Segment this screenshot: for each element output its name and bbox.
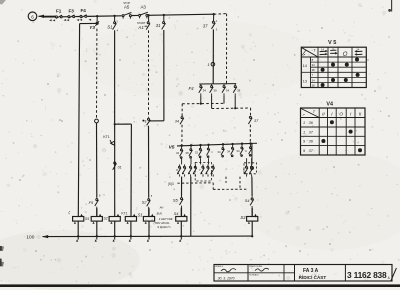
svg-text:F3: F3 [69, 8, 75, 13]
svg-text:S4: S4 [174, 211, 180, 216]
svg-text:34: 34 [312, 63, 315, 67]
svg-text:S5: S5 [173, 197, 179, 202]
svg-text:SCHVÁLIL: SCHVÁLIL [249, 273, 260, 276]
svg-text:34: 34 [217, 150, 221, 154]
svg-text:ŘÍDICÍ ČÁST: ŘÍDICÍ ČÁST [299, 273, 327, 280]
svg-text:38: 38 [312, 83, 315, 87]
svg-text:Y3: Y3 [89, 25, 95, 30]
svg-text:34: 34 [227, 149, 231, 153]
svg-text:01: 01 [118, 166, 122, 170]
svg-text:F4: F4 [189, 86, 195, 91]
svg-text:STOP: STOP [123, 1, 130, 5]
svg-text:V 5: V 5 [328, 40, 336, 46]
svg-text:S4: S4 [245, 198, 251, 203]
svg-text:F4: F4 [81, 8, 87, 13]
svg-text:100: 100 [26, 235, 34, 241]
svg-text:30. 3. 1970: 30. 3. 1970 [218, 276, 235, 280]
svg-text:S5: S5 [85, 217, 89, 221]
svg-text:FA 3 A: FA 3 A [303, 268, 319, 274]
svg-text:KT1: KT1 [121, 211, 127, 215]
svg-text:37: 37 [203, 24, 208, 29]
svg-text:↗: ↗ [303, 53, 306, 57]
svg-text:34: 34 [176, 151, 180, 155]
svg-text:34: 34 [312, 78, 315, 82]
svg-text:34: 34 [226, 89, 230, 93]
svg-text:S.RADA ½: S.RADA ½ [157, 225, 171, 229]
svg-text:14: 14 [303, 64, 307, 68]
svg-text:3 1162 838: 3 1162 838 [347, 270, 387, 280]
svg-text:F1: F1 [56, 9, 62, 14]
svg-text:A3: A3 [141, 4, 147, 9]
svg-text:F5: F5 [89, 200, 94, 205]
svg-text:S1: S1 [107, 25, 113, 30]
svg-text:1: 1 [303, 130, 305, 134]
svg-text:38: 38 [237, 89, 241, 93]
svg-text:31: 31 [156, 23, 161, 28]
svg-text:O: O [339, 111, 343, 116]
svg-text:S2: S2 [103, 217, 107, 221]
svg-text:O: O [343, 52, 348, 58]
svg-text:AH: AH [159, 205, 164, 209]
svg-text:KT1: KT1 [103, 135, 110, 139]
svg-text:34: 34 [175, 119, 179, 123]
svg-text:(5)3: (5)3 [168, 182, 174, 186]
svg-text:34: 34 [203, 89, 207, 93]
svg-text:38: 38 [312, 68, 315, 72]
svg-text:32: 32 [195, 151, 199, 155]
svg-text:↗: ↗ [302, 113, 305, 117]
svg-text:PŘEZKOUŠEL: PŘEZKOUŠEL [249, 265, 263, 268]
svg-text:BUK.: BUK. [157, 212, 163, 216]
svg-text:S1: S1 [138, 213, 143, 218]
svg-text:30: 30 [213, 89, 217, 93]
svg-text:A1: A1 [137, 25, 144, 30]
svg-text:1: 1 [303, 121, 305, 125]
svg-text:V4: V4 [326, 102, 333, 108]
svg-text:13: 13 [303, 79, 307, 83]
svg-text:V5: V5 [169, 145, 175, 151]
svg-text:S3: S3 [240, 215, 246, 220]
svg-text:KRESLIL: KRESLIL [215, 266, 224, 268]
svg-text:1: 1 [207, 62, 209, 67]
svg-text:S2: S2 [142, 200, 148, 205]
svg-text:34: 34 [236, 149, 240, 153]
svg-text:38: 38 [185, 151, 189, 155]
svg-text:8: 8 [145, 119, 147, 123]
